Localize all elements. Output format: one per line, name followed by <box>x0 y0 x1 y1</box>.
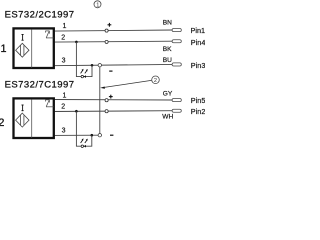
svg-text:Pin4: Pin4 <box>191 38 205 47</box>
divider S1 <box>31 30 33 68</box>
inductive diamond S2 <box>16 113 29 127</box>
svg-text:3: 3 <box>62 128 66 135</box>
shared minus link wire <box>99 67 101 134</box>
callout 1 <box>94 1 101 9</box>
svg-text:1: 1 <box>63 23 67 30</box>
terminal circle line1 <box>105 29 108 32</box>
terminal circle line3' <box>98 134 101 137</box>
inductive diamond S1 <box>16 43 29 57</box>
svg-text:1: 1 <box>63 93 67 100</box>
svg-text:2: 2 <box>154 78 157 84</box>
inductive label I S1 <box>21 34 23 41</box>
svg-text:Pin5: Pin5 <box>191 96 205 105</box>
terminal circle line2 <box>105 40 108 43</box>
wire minus (line 3') <box>52 134 98 136</box>
junction line2/load <box>75 41 78 44</box>
output switch S1 <box>45 31 53 38</box>
wire BU (line 3) <box>52 64 173 65</box>
svg-text:1: 1 <box>1 43 7 55</box>
ferrule GY <box>172 99 181 102</box>
load LED symbol 2 <box>81 138 88 147</box>
svg-text:WH: WH <box>162 113 173 120</box>
plus supply 1 <box>108 23 112 27</box>
terminal circle line3 <box>98 63 101 66</box>
load wire loop 2 <box>76 111 91 146</box>
load LED symbol 1 <box>81 69 88 78</box>
svg-text:Pin3: Pin3 <box>191 61 205 70</box>
junction line3/load <box>91 64 94 67</box>
svg-text:GY: GY <box>163 90 173 97</box>
ferrule BN <box>172 29 181 32</box>
junction line2'/load <box>75 110 78 113</box>
wire BK (line 2) <box>52 40 173 43</box>
svg-text:Pin2: Pin2 <box>191 107 205 116</box>
sensor box S2 <box>14 98 54 138</box>
svg-text:Pin1: Pin1 <box>191 26 206 35</box>
svg-text:2: 2 <box>61 104 65 111</box>
wire GY (line 1') <box>52 99 173 102</box>
ferrule BU <box>172 63 181 66</box>
svg-text:ES732/7C1997: ES732/7C1997 <box>5 80 75 91</box>
ferrule WH <box>172 109 181 112</box>
minus supply 1 <box>109 71 112 72</box>
divider S2 <box>31 100 33 138</box>
svg-text:BU: BU <box>163 57 172 64</box>
svg-text:ES732/2C1997: ES732/2C1997 <box>5 9 75 20</box>
callout 2 leader arrow <box>100 80 151 88</box>
terminal circle line2' <box>105 110 108 113</box>
sensor box S1 <box>14 28 54 68</box>
load wire loop 1 <box>76 42 92 77</box>
callout 2 <box>152 76 160 84</box>
plus supply 2 <box>109 95 113 99</box>
ferrule BK <box>172 40 181 43</box>
svg-text:BK: BK <box>163 46 172 53</box>
svg-text:2: 2 <box>0 117 4 129</box>
svg-text:BN: BN <box>163 20 172 27</box>
minus supply 2 <box>110 135 113 136</box>
svg-text:1: 1 <box>96 2 99 8</box>
terminal circle line1' <box>105 99 108 102</box>
inductive label I S2 <box>21 105 23 112</box>
svg-text:2: 2 <box>61 34 65 41</box>
wire BN (line 1) <box>52 30 173 31</box>
junction line3'/load <box>91 134 94 137</box>
svg-text:3: 3 <box>62 58 66 65</box>
output switch S2 <box>45 100 53 107</box>
wire WH (line 2') <box>52 110 173 113</box>
